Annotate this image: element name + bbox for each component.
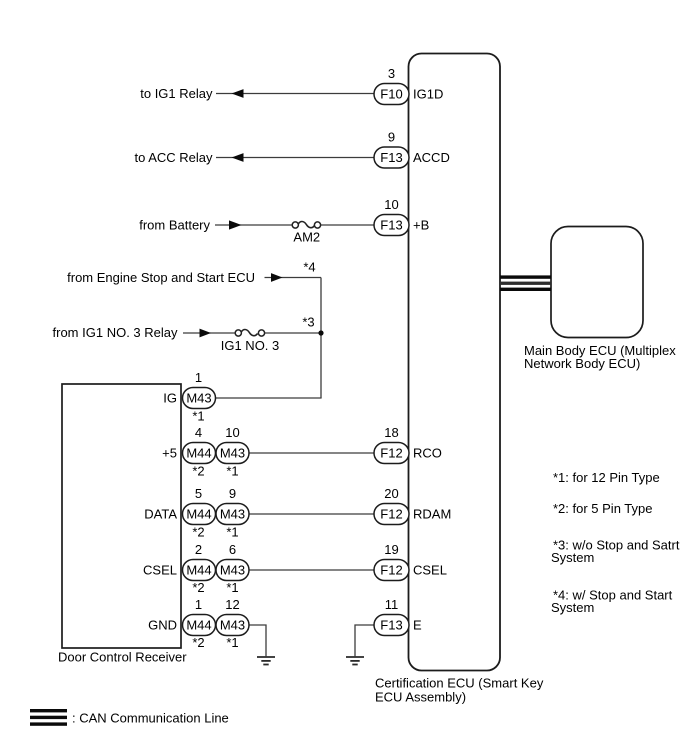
label Main Body ECU caption	[524, 343, 676, 371]
svg-text:*4: *4	[303, 260, 315, 275]
svg-text:10: 10	[225, 425, 239, 440]
connector M43 +5	[216, 443, 249, 464]
ECU box U1 Certification ECU (Smart Key ECU Assembly)	[409, 54, 501, 671]
CAN bus triple line	[500, 275, 551, 291]
svg-text:10: 10	[384, 197, 398, 212]
svg-text:19: 19	[384, 542, 398, 557]
svg-text:*2: *2	[192, 580, 204, 595]
svg-text:9: 9	[388, 130, 395, 145]
arrowhead to ACC Relay	[232, 153, 244, 162]
connector F13 ACCD	[374, 147, 409, 168]
svg-text:*2: *2	[192, 464, 204, 479]
svg-text:F12: F12	[380, 507, 402, 522]
wire to ACC Relay	[216, 157, 374, 159]
svg-text:M44: M44	[186, 618, 211, 633]
arrowhead from IG1 NO. 3 Relay	[200, 329, 212, 338]
connector M43 IG	[183, 388, 216, 409]
wire IG to vertical bus	[216, 397, 322, 399]
svg-text:from Engine Stop and Start ECU: from Engine Stop and Start ECU	[67, 270, 255, 285]
legend CAN Communication Line	[30, 709, 229, 726]
note *4: w/ Stop and Start System	[551, 588, 673, 616]
svg-text:F13: F13	[380, 150, 402, 165]
svg-text:RCO: RCO	[413, 446, 442, 461]
svg-text:1: 1	[195, 370, 202, 385]
connector M43 DATA	[216, 504, 249, 525]
svg-text:Door Control Receiver: Door Control Receiver	[58, 650, 187, 665]
wire DATA to RDAM	[249, 513, 374, 515]
label Certification ECU caption	[375, 676, 544, 705]
svg-text:*2: *2	[192, 525, 204, 540]
svg-text:to IG1 Relay: to IG1 Relay	[140, 86, 213, 101]
svg-text:System: System	[551, 600, 594, 615]
svg-text:M44: M44	[186, 507, 211, 522]
wire to IG1 Relay	[216, 93, 374, 95]
svg-text:DATA: DATA	[144, 507, 177, 522]
svg-text:6: 6	[229, 542, 236, 557]
svg-text:IG: IG	[163, 391, 177, 406]
svg-text:F13: F13	[380, 218, 402, 233]
svg-text:CSEL: CSEL	[143, 563, 177, 578]
svg-text:M43: M43	[186, 391, 211, 406]
svg-text:ACCD: ACCD	[413, 150, 450, 165]
wire from IG1 NO. 3 Relay	[183, 332, 236, 334]
svg-text:*1: *1	[226, 464, 238, 479]
svg-text:System: System	[551, 550, 594, 565]
connector M43 GND	[216, 615, 249, 636]
connector M43 CSEL	[216, 560, 249, 581]
svg-text:from Battery: from Battery	[139, 218, 210, 233]
svg-text:AM2: AM2	[293, 230, 320, 245]
svg-text:F10: F10	[380, 87, 402, 102]
svg-text:: CAN Communication Line: : CAN Communication Line	[72, 711, 229, 726]
svg-text:*1: *1	[192, 409, 204, 424]
svg-text:M43: M43	[220, 446, 245, 461]
svg-text:3: 3	[388, 66, 395, 81]
connector M44 DATA	[183, 504, 216, 525]
note *3: w/o Stop and Satrt System	[551, 538, 680, 566]
svg-text:CSEL: CSEL	[413, 563, 447, 578]
svg-text:Certification ECU (Smart Key: Certification ECU (Smart Key	[375, 676, 544, 691]
wire +5 to RCO	[249, 452, 374, 454]
svg-text:to ACC Relay: to ACC Relay	[134, 150, 213, 165]
svg-text:*2: *2	[192, 635, 204, 650]
svg-text:F12: F12	[380, 563, 402, 578]
svg-text:from IG1 NO. 3 Relay: from IG1 NO. 3 Relay	[53, 325, 178, 340]
svg-text:F12: F12	[380, 446, 402, 461]
arrowhead from Battery	[229, 220, 242, 229]
wire from Engine Stop and Start ECU	[265, 277, 322, 279]
ECU box U2 Main Body ECU (Multiplex Network Body ECU)	[551, 227, 643, 338]
svg-text:ECU Assembly): ECU Assembly)	[375, 690, 466, 705]
svg-text:Network Body ECU): Network Body ECU)	[524, 356, 640, 371]
svg-text:GND: GND	[148, 618, 177, 633]
connector M44 +5	[183, 443, 216, 464]
fuse IG1 NO. 3	[221, 330, 280, 353]
svg-text:9: 9	[229, 486, 236, 501]
arrowhead from Engine Stop and Start ECU	[271, 273, 283, 282]
svg-text:4: 4	[195, 425, 202, 440]
svg-text:M44: M44	[186, 446, 211, 461]
ground symbol left	[257, 657, 275, 665]
connector F13 E	[374, 615, 409, 636]
svg-text:1: 1	[195, 597, 202, 612]
svg-text:11: 11	[385, 597, 399, 612]
wire E to ground	[355, 625, 374, 656]
connector F12 RCO	[374, 443, 409, 464]
wire GND to ground	[249, 625, 266, 656]
connector F13 +B	[374, 215, 409, 236]
connector F12 CSEL	[374, 560, 409, 581]
svg-text:*1: *1	[226, 580, 238, 595]
svg-text:RDAM: RDAM	[413, 507, 451, 522]
svg-text:18: 18	[384, 425, 398, 440]
svg-text:*1: *1	[226, 635, 238, 650]
svg-text:5: 5	[195, 486, 202, 501]
svg-text:*2: for 5 Pin Type: *2: for 5 Pin Type	[553, 501, 653, 516]
svg-text:IG1D: IG1D	[413, 87, 443, 102]
svg-text:+5: +5	[162, 446, 177, 461]
connector M44 CSEL	[183, 560, 216, 581]
wire from Battery	[215, 224, 293, 226]
svg-text:IG1 NO. 3: IG1 NO. 3	[221, 338, 280, 353]
svg-text:12: 12	[225, 597, 239, 612]
svg-text:E: E	[413, 618, 422, 633]
svg-text:20: 20	[384, 486, 398, 501]
Door Control Receiver box	[62, 384, 181, 648]
svg-text:*3: *3	[302, 315, 314, 330]
connector F12 RDAM	[374, 504, 409, 525]
svg-text:M43: M43	[220, 618, 245, 633]
svg-text:+B: +B	[413, 218, 429, 233]
fuse AM2	[292, 222, 320, 245]
wire vertical bus	[320, 278, 322, 399]
arrowhead to IG1 Relay	[232, 89, 244, 98]
svg-text:2: 2	[195, 542, 202, 557]
svg-text:M43: M43	[220, 563, 245, 578]
connector F10	[374, 84, 409, 105]
svg-text:*1: *1	[226, 525, 238, 540]
svg-text:M44: M44	[186, 563, 211, 578]
svg-text:*1: for 12 Pin Type: *1: for 12 Pin Type	[553, 470, 660, 485]
node *3 junction	[318, 330, 323, 335]
connector M44 GND	[183, 615, 216, 636]
svg-text:F13: F13	[380, 618, 402, 633]
wire CSEL to CSEL	[249, 569, 374, 571]
svg-text:M43: M43	[220, 507, 245, 522]
ground symbol right	[346, 657, 364, 665]
